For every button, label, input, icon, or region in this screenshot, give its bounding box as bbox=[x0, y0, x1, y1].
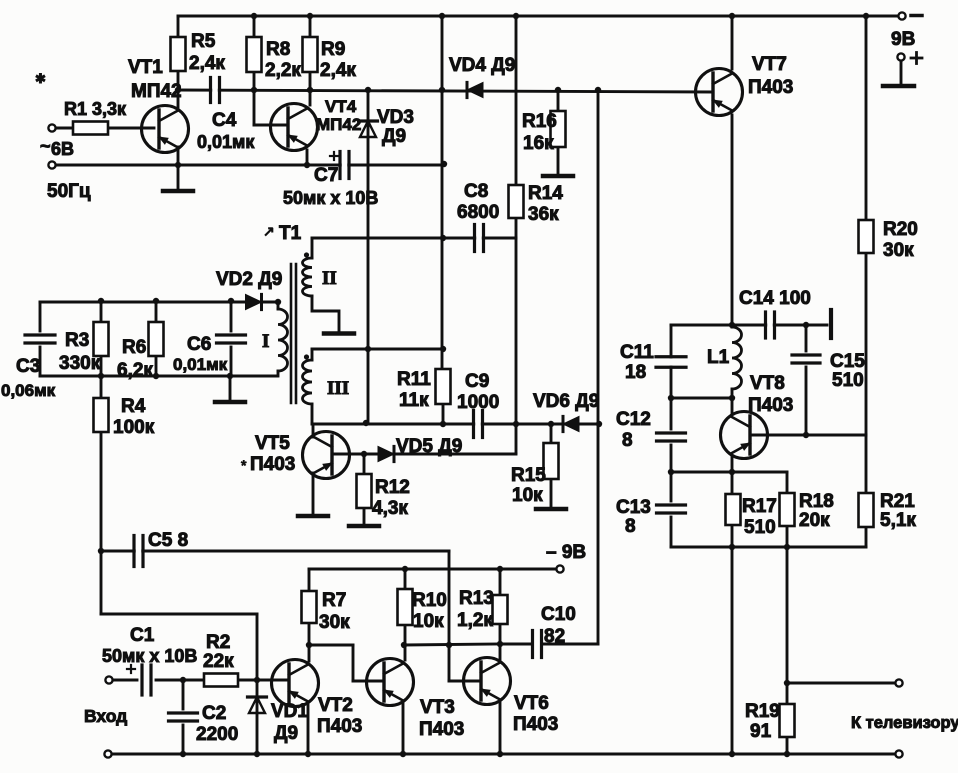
svg-text:50Гц: 50Гц bbox=[47, 181, 91, 202]
svg-text:VD1: VD1 bbox=[271, 701, 308, 722]
svg-text:R8: R8 bbox=[266, 39, 290, 60]
svg-text:I: I bbox=[262, 331, 269, 352]
svg-text:МП42: МП42 bbox=[316, 115, 361, 134]
svg-text:L1: L1 bbox=[707, 347, 730, 368]
svg-text:10к: 10к bbox=[512, 485, 543, 506]
svg-text:VD5 Д9: VD5 Д9 bbox=[396, 436, 462, 457]
svg-text:П403: П403 bbox=[748, 395, 793, 416]
svg-text:VT3: VT3 bbox=[420, 697, 455, 718]
svg-text:R18: R18 bbox=[799, 491, 834, 512]
svg-text:VT1: VT1 bbox=[128, 57, 163, 78]
svg-text:2200: 2200 bbox=[196, 724, 238, 745]
svg-text:R9: R9 bbox=[321, 39, 345, 60]
svg-text:Т1: Т1 bbox=[279, 223, 302, 244]
svg-text:4,3к: 4,3к bbox=[372, 498, 408, 519]
svg-text:18: 18 bbox=[625, 362, 646, 383]
svg-text:R13: R13 bbox=[459, 588, 494, 609]
svg-text:П403: П403 bbox=[250, 454, 295, 475]
svg-text:МП42: МП42 bbox=[131, 81, 182, 102]
svg-text:0,06мк: 0,06мк bbox=[1, 381, 56, 400]
svg-text:0,01мк: 0,01мк bbox=[173, 355, 228, 374]
svg-text:91: 91 bbox=[750, 721, 772, 742]
svg-text:1000: 1000 bbox=[457, 392, 499, 413]
svg-text:↗: ↗ bbox=[263, 223, 275, 239]
svg-text:VD4 Д9: VD4 Д9 bbox=[449, 55, 515, 76]
svg-text:VD2 Д9: VD2 Д9 bbox=[216, 269, 282, 290]
svg-text:VD6 Д9: VD6 Д9 bbox=[533, 391, 599, 412]
svg-text:R10: R10 bbox=[412, 590, 447, 611]
svg-text:C14 100: C14 100 bbox=[739, 288, 811, 309]
svg-text:5,1к: 5,1к bbox=[880, 510, 916, 531]
svg-text:R15: R15 bbox=[511, 465, 546, 486]
svg-text:✱: ✱ bbox=[35, 71, 46, 86]
svg-text:36к: 36к bbox=[528, 204, 559, 225]
svg-text:50мк x 10В: 50мк x 10В bbox=[283, 188, 378, 208]
svg-text:VT4: VT4 bbox=[325, 97, 357, 116]
svg-text:100к: 100к bbox=[113, 417, 155, 438]
svg-text:VT8: VT8 bbox=[750, 373, 785, 394]
svg-text:1,2к: 1,2к bbox=[457, 610, 493, 631]
svg-text:VT2: VT2 bbox=[318, 695, 353, 716]
svg-text:III: III bbox=[327, 378, 349, 399]
svg-text:6,2к: 6,2к bbox=[117, 360, 153, 381]
svg-text:С3: С3 bbox=[16, 356, 40, 377]
svg-text:22к: 22к bbox=[203, 651, 234, 672]
svg-text:R2: R2 bbox=[206, 632, 230, 653]
svg-text:9В: 9В bbox=[891, 29, 915, 50]
svg-text:R11: R11 bbox=[397, 369, 431, 390]
svg-text:Вход: Вход bbox=[84, 706, 127, 726]
svg-text:C12: C12 bbox=[616, 409, 651, 430]
svg-text:8: 8 bbox=[625, 516, 636, 537]
svg-text:R4: R4 bbox=[121, 396, 146, 417]
svg-text:C1: C1 bbox=[130, 625, 155, 646]
svg-text:R6: R6 bbox=[122, 337, 146, 358]
svg-text:Д9: Д9 bbox=[274, 723, 298, 744]
svg-text:R17: R17 bbox=[742, 496, 777, 517]
svg-text:6В: 6В bbox=[51, 139, 74, 159]
svg-text:R5: R5 bbox=[191, 31, 216, 52]
svg-text:330к: 330к bbox=[59, 353, 101, 374]
svg-text:30к: 30к bbox=[883, 240, 914, 261]
svg-text:*: * bbox=[241, 457, 247, 473]
svg-text:C11: C11 bbox=[620, 342, 654, 363]
svg-text:8: 8 bbox=[622, 430, 633, 451]
svg-text:C13: C13 bbox=[616, 497, 651, 518]
svg-text:50мк x 10В: 50мк x 10В bbox=[102, 646, 197, 666]
svg-text:2,4к: 2,4к bbox=[189, 53, 225, 74]
svg-text:R21: R21 bbox=[880, 491, 915, 512]
svg-text:С6: С6 bbox=[187, 334, 211, 355]
svg-text:П403: П403 bbox=[513, 714, 558, 735]
svg-text:0,01мк: 0,01мк bbox=[197, 132, 255, 152]
svg-text:20к: 20к bbox=[799, 510, 830, 531]
svg-text:C5 8: C5 8 bbox=[148, 530, 188, 551]
svg-text:10к: 10к bbox=[413, 611, 444, 632]
svg-text:К телевизору: К телевизору bbox=[851, 714, 958, 732]
svg-text:II: II bbox=[322, 268, 337, 289]
svg-text:VD3: VD3 bbox=[377, 107, 414, 128]
svg-text:П403: П403 bbox=[317, 716, 362, 737]
svg-text:C8: C8 bbox=[464, 181, 488, 202]
svg-text:VT6: VT6 bbox=[514, 693, 549, 714]
svg-text:R3: R3 bbox=[65, 330, 89, 351]
svg-text:30к: 30к bbox=[319, 612, 350, 633]
svg-text:Д9: Д9 bbox=[382, 126, 406, 147]
svg-text:2,4к: 2,4к bbox=[320, 60, 356, 81]
svg-text:C15: C15 bbox=[830, 351, 865, 372]
svg-text:16к: 16к bbox=[523, 133, 554, 154]
svg-text:510: 510 bbox=[832, 370, 864, 391]
svg-text:6800: 6800 bbox=[457, 202, 499, 223]
svg-text:510: 510 bbox=[744, 517, 776, 538]
svg-text:R14: R14 bbox=[528, 183, 563, 204]
svg-text:R16: R16 bbox=[522, 111, 557, 132]
svg-text:R19: R19 bbox=[745, 701, 780, 722]
svg-text:R20: R20 bbox=[883, 219, 918, 240]
svg-text:R12: R12 bbox=[375, 477, 410, 498]
svg-text:П403: П403 bbox=[419, 719, 464, 740]
svg-text:П403: П403 bbox=[748, 77, 793, 98]
svg-text:C4: C4 bbox=[212, 110, 237, 131]
svg-text:С7: С7 bbox=[314, 165, 338, 186]
svg-text:VT5: VT5 bbox=[255, 433, 290, 454]
svg-text:C2: C2 bbox=[202, 703, 226, 724]
svg-text:2,2к: 2,2к bbox=[265, 60, 301, 81]
svg-text:C10: C10 bbox=[541, 604, 576, 625]
svg-text:11к: 11к bbox=[399, 390, 429, 411]
svg-text:~: ~ bbox=[40, 136, 51, 156]
svg-text:R1 3,3к: R1 3,3к bbox=[64, 99, 127, 119]
svg-text:R7: R7 bbox=[322, 590, 346, 611]
svg-text:82: 82 bbox=[544, 626, 565, 647]
svg-text:– 9В: – 9В bbox=[546, 542, 586, 563]
svg-text:C9: C9 bbox=[465, 371, 489, 392]
svg-text:VT7: VT7 bbox=[752, 54, 787, 75]
